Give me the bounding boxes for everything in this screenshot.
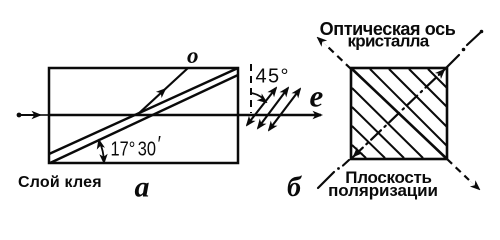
angle arc 17°30': [99, 140, 104, 163]
polarization double-arrow 3: [269, 89, 300, 130]
svg-text:б: б: [287, 172, 302, 203]
dashed vertical reference line: [250, 64, 252, 113]
svg-text:кристалла: кристалла: [348, 32, 430, 51]
svg-text:45°: 45°: [256, 66, 290, 88]
optical axis diagonal (solid inside square): [351, 68, 447, 159]
optical axis extension top-left with arrow: [328, 47, 351, 69]
polarization plane diagonal (dash-dot) with arrowheads: [353, 69, 445, 157]
svg-text:поляризации: поляризации: [328, 181, 438, 200]
prism rectangle: [49, 68, 238, 163]
glue layer lower line: [50, 75, 238, 163]
crystal square: [351, 68, 447, 159]
o-ray arrowhead: [155, 89, 165, 98]
svg-text:е: е: [310, 79, 324, 114]
polarization plane extension top-right: [446, 32, 481, 68]
svg-text:о: о: [187, 43, 199, 68]
optical axis extension bottom-right with arrow: [447, 159, 469, 180]
hatching: [352, 69, 447, 158]
svg-text:а: а: [135, 171, 150, 204]
svg-text:17°30′: 17°30′: [111, 133, 162, 160]
svg-text:Слой клея: Слой клея: [18, 174, 102, 191]
polarization plane extension bottom-left: [318, 160, 349, 188]
incident ray: [17, 114, 40, 116]
ray through prism (e-ray path): [49, 114, 321, 116]
45° angle arc: [251, 93, 267, 102]
o-ray: [137, 68, 188, 115]
polarization double-arrow 2: [258, 88, 288, 128]
polarization double-arrow 1: [247, 88, 276, 125]
glue layer upper line: [49, 68, 238, 154]
